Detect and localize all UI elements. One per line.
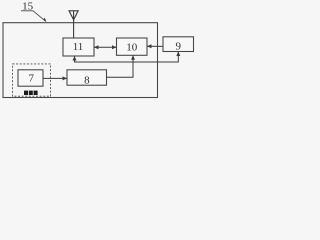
svg-text:8: 8 bbox=[84, 74, 90, 86]
wire 11 bottom to 9 bottom bbox=[73, 52, 181, 63]
svg-text:11: 11 bbox=[73, 41, 84, 53]
outer enclosure box (device 15) bbox=[3, 23, 158, 98]
block 8 bbox=[67, 70, 107, 87]
block 10 bbox=[117, 38, 148, 55]
label 15 bbox=[21, 1, 47, 23]
wire 8 to 10 bottom bbox=[107, 55, 136, 77]
dashed enclosure around block 7 bbox=[13, 64, 51, 96]
wire 7 to 8 bbox=[43, 76, 67, 80]
wire 11 to 10 (bidirectional) bbox=[94, 45, 117, 49]
caption text under block 7 bbox=[24, 91, 38, 95]
antenna bbox=[69, 11, 78, 38]
svg-text:9: 9 bbox=[176, 40, 182, 52]
svg-text:10: 10 bbox=[126, 41, 138, 53]
block 9 bbox=[163, 37, 194, 53]
wire 9 to 10 bbox=[147, 44, 163, 48]
block 7 bbox=[18, 70, 43, 86]
block 11 bbox=[63, 38, 94, 56]
svg-text:7: 7 bbox=[28, 72, 34, 84]
